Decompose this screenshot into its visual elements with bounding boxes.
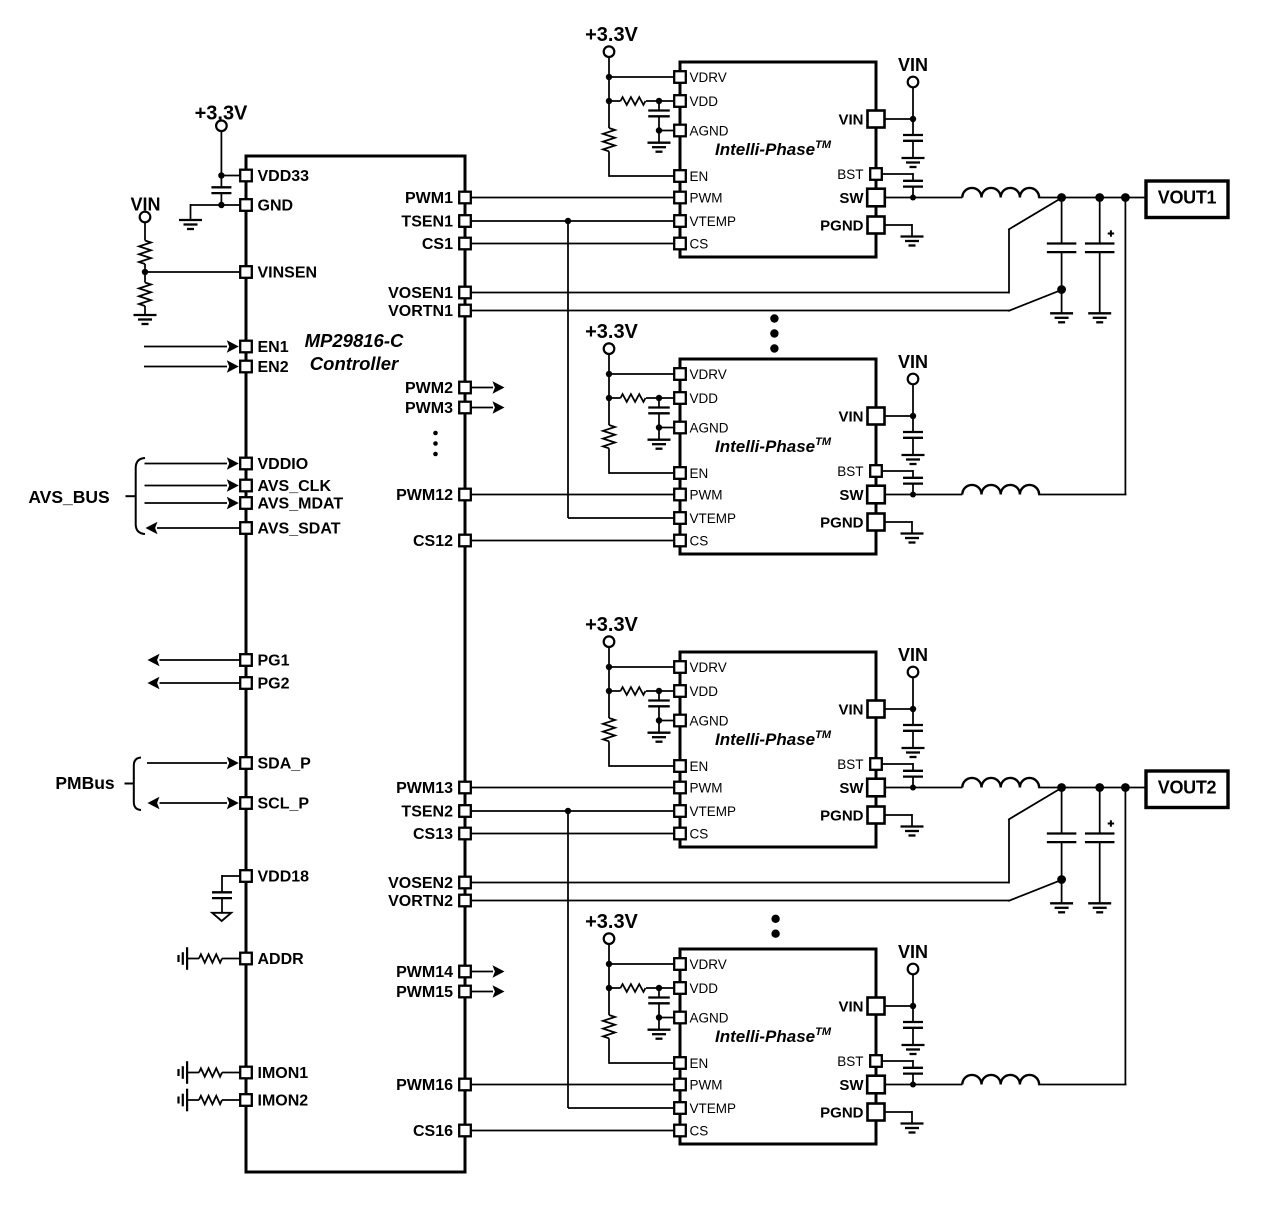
svg-text:Intelli-PhaseTM: Intelli-PhaseTM [715,436,832,456]
phase 3 wire BST to cap [881,763,913,771]
phase 3 pin CS [674,828,686,840]
phase 1 pin PGND [868,217,885,234]
svg-text:EN: EN [690,1056,709,1071]
ground (bulk cap VOUT2) [1088,903,1111,912]
svg-text:PWM: PWM [690,487,723,502]
phase 3 pin SW [867,779,885,797]
phase 3 pin label VDD [690,684,719,699]
svg-text:AGND: AGND [690,713,729,728]
phase 3 resistor VDD filter [621,687,646,695]
brace AVS_BUS [136,458,145,534]
arrow out of AVS_SDAT [146,522,158,535]
svg-text:VDRV: VDRV [690,70,727,85]
tick AVS_BUS brace [126,495,136,497]
arrow out of PWM2 [493,381,505,394]
phase 4 wire PGND to ground [885,1111,912,1123]
phase 2 pin BST [870,465,882,477]
phase 2 pin AGND [674,422,686,434]
phase 4 pin label CS [690,1123,709,1138]
phase 3 net VIN supply [898,645,928,665]
phase 2 wire to AGND pin [659,427,675,429]
phase 4 terminal circle VIN [908,964,919,975]
phase 2 pin label CS [690,533,709,548]
controller pin AVS_CLK [240,480,252,492]
phase 1 Intelli-Phase block box [680,62,876,257]
svg-text:Intelli-PhaseTM: Intelli-PhaseTM [715,729,832,749]
svg-text:VORTN1: VORTN1 [388,303,453,320]
svg-text:Intelli-PhaseTM: Intelli-PhaseTM [715,1026,832,1046]
phase 1 wire to AGND pin [659,130,675,132]
phase 2 net +3.3V supply [585,321,638,343]
phase 4 pin label BST [837,1054,863,1069]
wire resistor to IMON2 pin [222,1099,241,1101]
phase 1 pin label SW [839,190,864,207]
phase 2 wire BST cap to SW [912,484,914,495]
phase 2 wire resistor to EN [609,448,675,474]
phase 3 pin label BST [837,757,863,772]
svg-text:VIN: VIN [838,701,863,718]
phase 1 wire BST cap to SW [912,187,914,198]
junction output node B (VOUT2) [1095,783,1104,792]
wire SCL_P bidirectional [160,802,228,804]
phase 4 junction at VDD row [606,985,612,991]
wire ground to resistor (IMON2) [187,1099,199,1101]
svg-text:CS1: CS1 [422,236,453,253]
phase 2 wire resistor to VDD pin [646,397,675,399]
phase 3 wire VIN down [912,677,914,725]
phase 1 pin label CS [690,236,709,251]
junction TSEN2 branch [565,808,571,814]
phase 1 pin label AGND [690,123,729,138]
wire TSEN1 branch down [568,221,674,518]
phase 4 pin PWM [674,1079,686,1091]
svg-text:VOSEN1: VOSEN1 [388,285,453,302]
svg-text:VDRV: VDRV [690,660,727,675]
phase 2 junction at VDD row [606,395,612,401]
phase 2 pin VDD [674,392,686,404]
wire node A to ceramic cap [1061,198,1063,244]
phase 2 capacitor VDD bypass [648,408,670,414]
phase 4 terminal circle +3.3V [604,933,615,944]
svg-text:VORTN2: VORTN2 [388,893,453,910]
phase 2 junction at VDD cap [656,395,662,401]
svg-text:PG1: PG1 [258,653,290,670]
svg-text:CS16: CS16 [413,1123,453,1140]
controller pin AVS_MDAT [240,497,252,509]
phase 3 pin label VTEMP [690,804,737,819]
wire ceramic cap to sense junction [1061,252,1063,313]
phase 2 wire to VDRV pin [609,373,675,375]
junction sense return (VOUT2) [1057,875,1066,884]
svg-text:VDD: VDD [690,684,719,699]
controller U1 MP29816-C box [246,156,465,1172]
wire node B to bulk cap [1099,788,1101,834]
svg-text:PWM: PWM [690,1077,723,1092]
svg-text:VTEMP: VTEMP [690,1101,737,1116]
phase 4 junction at VDD cap [656,985,662,991]
controller pin label SDA_P [258,756,312,773]
junction at VDD33 [218,172,224,178]
arrow into SCL_P [227,797,239,810]
resistor divider lower [139,283,151,307]
wire EN2 input [144,366,227,368]
controller pin label AVS_SDAT [258,521,341,538]
phase 2 pin VDRV [674,368,686,380]
phase 3 junction at VDRV row [606,664,612,670]
wire VORTN2 sense [471,880,1062,901]
phase 3 label Intelli-Phase [715,729,832,749]
resistor IMON1 [199,1068,222,1076]
phase 1 wire to VDRV pin [609,76,675,78]
arrow out of PWM3 [493,401,505,414]
svg-text:EN2: EN2 [258,359,289,376]
controller pin IMON1 [240,1067,252,1079]
wire AVS_SDAT output [157,527,241,529]
phase 1 terminal circle +3.3V [604,46,615,57]
wire node B to bulk cap [1099,198,1101,244]
controller pin VDD18 [240,870,252,882]
phase 4 wire to VDRV pin [609,963,675,965]
svg-text:AGND: AGND [690,420,729,435]
controller pin PG1 [240,654,252,666]
phase 4 wire +3.3V rail down to EN [608,944,610,1015]
arrow out of PWM14 [493,965,505,978]
junction output node C (VOUT1) [1121,193,1130,202]
svg-text:AVS_SDAT: AVS_SDAT [258,521,341,538]
svg-text:AVS_BUS: AVS_BUS [28,487,109,507]
phase 1 wire +3.3V rail down to EN [608,57,610,128]
wire PG1 output [160,659,242,661]
phase 1 wire VIN pin to rail [885,118,913,120]
controller pin label PG2 [258,676,290,693]
wire ground to resistor (ADDR) [187,958,199,960]
controller pin label CS1 [422,236,453,253]
svg-text:VIN: VIN [838,408,863,425]
ellipsis phases section 1 [770,314,778,352]
tick PMBus brace [125,783,134,785]
phase 4 wire to VDD cap [658,988,660,998]
phase 3 junction at VDD row [606,688,612,694]
phase 4 wire to AGND pin [659,1017,675,1019]
svg-text:VDD18: VDD18 [258,869,310,886]
wire into VINSEN pin [145,271,241,273]
controller pin EN2 [240,361,252,373]
wire PWM14 output [471,971,493,973]
wire PWM16 to phase PWM [471,1084,674,1086]
wire divider to ground [144,306,146,315]
arrow into AVS_CLK [227,479,239,492]
ground (IMON1, sideways) [179,1061,188,1084]
svg-text:EN1: EN1 [258,339,289,356]
controller pin VINSEN [240,266,252,278]
svg-text:PWM13: PWM13 [396,780,453,797]
phase 1 wire resistor to EN [609,151,675,177]
phase 1 pin SW [867,189,885,207]
phase 4 pin label PGND [820,1104,864,1121]
phase 1 pin VDRV [674,71,686,83]
wire SW node to VOUT2 [1038,787,1146,789]
phase 1 pin AGND [674,125,686,137]
phase 4 pin VDRV [674,958,686,970]
phase 4 ground (AGND) [648,1030,671,1039]
phase 4 junction at VIN row [910,1003,916,1009]
polarity + (bulk cap VOUT2) [1108,820,1114,826]
phase 3 pin EN [674,760,686,772]
phase 4 ground (PGND) [901,1124,924,1133]
phase 3 wire VIN cap to ground [912,731,914,748]
controller pin PG2 [240,677,252,689]
label AVS_BUS [28,487,109,507]
phase 3 wire to AGND pin [659,720,675,722]
phase 1 wire PGND to ground [885,224,912,236]
phase 1 pin BST [870,168,882,180]
svg-text:PGND: PGND [820,217,864,234]
svg-text:PMBus: PMBus [55,773,115,793]
svg-text:+3.3V: +3.3V [585,321,638,343]
arrow out of PG1 [148,654,160,667]
phase 1 ground (AGND) [648,143,671,152]
svg-text:AGND: AGND [690,123,729,138]
phase 4 net +3.3V supply [585,911,638,933]
phase 1 pin label BST [837,167,863,182]
phase 4 wire to VDD resistor [609,987,621,989]
controller pin label TSEN1 [401,214,453,231]
arrow out of SCL_P [148,797,160,810]
phase 4 pin label VTEMP [690,1101,737,1116]
ground (controller GND) [179,220,202,229]
svg-text:+3.3V: +3.3V [585,24,638,46]
controller pin label VDDIO [258,456,309,473]
phase 3 wire PGND to ground [885,814,912,826]
box VOUT2 [1146,771,1228,808]
controller pin VDD33 [240,170,252,182]
svg-text:VIN: VIN [838,111,863,128]
phase 2 wire VIN cap to ground [912,438,914,455]
wire TSEN1 to phase VTEMP [471,220,674,222]
wire bulk cap to ground [1099,842,1101,903]
controller pin VORTN1 [459,305,471,317]
phase 4 pin label VDRV [690,957,727,972]
phase 2 junction at VDRV row [606,371,612,377]
controller pin label GND [258,198,294,215]
phase 2 pin label PWM [690,487,723,502]
junction output node A (VOUT2) [1057,783,1066,792]
phase 1 pin label EN [690,169,709,184]
svg-text:+3.3V: +3.3V [585,911,638,933]
svg-text:PG2: PG2 [258,676,290,693]
label Controller [310,353,400,374]
phase 4 wire VDD cap to AGND [658,1003,660,1029]
wire PWM3 output [471,407,493,409]
svg-text:Intelli-PhaseTM: Intelli-PhaseTM [715,139,832,159]
phase 4 wire BST to cap [881,1060,913,1068]
label VOUT1 [1158,188,1217,208]
svg-text:VDD33: VDD33 [258,168,310,185]
ground arrow (VDD18) [212,913,231,921]
controller pin IMON2 [240,1094,252,1106]
svg-text:PGND: PGND [820,807,864,824]
phase 2 pin PWM [674,489,686,501]
ellipsis phases section 2 [771,915,779,938]
wire SDA_P input [147,762,227,764]
phase 2 capacitor VIN bypass [903,432,923,438]
phase 3 capacitor VDD bypass [648,701,670,707]
wire phase 2 inductor to VOUT1 rail [1038,494,1126,496]
phase 1 pin VIN [868,111,885,128]
phase 1 wire SW to inductor [885,197,962,199]
svg-text:VINSEN: VINSEN [258,265,318,282]
controller pin PWM2 [459,382,471,394]
phase 3 pin label CS [690,826,709,841]
phase 3 capacitor VIN bypass [903,725,923,731]
phase 3 pin label PGND [820,807,864,824]
wire ceramic cap to sense junction [1061,842,1063,903]
phase 1 capacitor VIN bypass [903,135,923,141]
svg-text:BST: BST [837,464,863,479]
phase 3 pin label EN [690,759,709,774]
wire AVS_MDAT input [145,502,228,504]
phase 4 pin VIN [868,998,885,1015]
wire TSEN2 to phase VTEMP [471,810,674,812]
phase 3 pin label AGND [690,713,729,728]
ground (ceramic cap VOUT1) [1050,313,1073,322]
junction output node B (VOUT1) [1095,193,1104,202]
wire into VDD33 pin [221,175,241,177]
phase 4 pin label VDD [690,981,719,996]
controller pin label CS13 [413,826,453,843]
phase 4 junction at VDRV row [606,961,612,967]
phase 3 pin PWM [674,782,686,794]
controller pin label EN1 [258,339,289,356]
wire VDDIO input [145,463,228,465]
phase 2 pin label PGND [820,514,864,531]
phase 1 junction at VDD row [606,98,612,104]
phase 3 pin VDD [674,685,686,697]
phase 4 pin label AGND [690,1010,729,1025]
controller pin VORTN2 [459,895,471,907]
phase 1 net +3.3V supply [585,24,638,46]
ellipsis PWM4-PWM11 [433,431,438,457]
phase 2 wire SW to inductor [885,494,962,496]
phase 2 pin PGND [868,514,885,531]
junction output node A (VOUT1) [1057,193,1066,202]
wire PG2 output [160,682,242,684]
phase 4 Intelli-Phase block box [680,949,876,1144]
phase 3 pin PGND [868,807,885,824]
arrow out of PG2 [148,677,160,690]
wire PWM2 output [471,387,493,389]
phase 3 Intelli-Phase block box [680,652,876,847]
arrow into VDDIO [227,457,239,470]
svg-text:CS12: CS12 [413,533,453,550]
phase 1 ground (VIN bypass) [902,158,925,167]
phase 3 pin label VDRV [690,660,727,675]
controller pin GND [240,199,252,211]
phase 2 pin CS [674,535,686,547]
phase 3 junction at VDD cap [656,688,662,694]
resistor divider upper [139,241,151,265]
capacitor output ceramic (VOUT1) [1047,244,1077,253]
phase 2 pin label VDD [690,391,719,406]
phase 3 pin BST [870,758,882,770]
phase 2 pin label VDRV [690,367,727,382]
wire resistor to IMON1 pin [222,1072,241,1074]
phase 1 wire resistor to VDD pin [646,100,675,102]
capacitor VDD33 decoupling [211,187,231,193]
phase 1 net VIN supply [898,55,928,75]
phase 2 wire +3.3V rail down to EN [608,354,610,425]
phase 2 terminal circle +3.3V [604,343,615,354]
svg-text:PWM12: PWM12 [396,487,453,504]
controller pin label AVS_MDAT [258,496,344,513]
svg-text:VDRV: VDRV [690,957,727,972]
svg-text:SW: SW [839,1077,864,1094]
phase 3 ground (VIN bypass) [902,748,925,757]
svg-text:CS: CS [690,1123,709,1138]
phase 3 wire BST cap to SW [912,777,914,788]
wire bulk cap to ground [1099,252,1101,313]
controller pin label VOSEN1 [388,285,453,302]
wire CS1 to phase CS [471,243,674,245]
phase 3 net +3.3V supply [585,614,638,636]
phase 4 pin label VIN [838,998,863,1015]
phase 1 pin label VDRV [690,70,727,85]
svg-text:SW: SW [839,487,864,504]
wire GND to ground [191,204,222,220]
svg-text:CS: CS [690,826,709,841]
svg-text:SCL_P: SCL_P [258,796,310,813]
svg-text:ADDR: ADDR [258,951,305,968]
net +3.3V supply (controller) [195,103,248,125]
capacitor VDD18 decoupling [212,892,232,898]
phase 3 pin AGND [674,715,686,727]
wire +3.3V to VDD33/GND rail [220,131,222,205]
phase 2 resistor VDD filter [621,394,646,402]
terminal circle VIN (divider) [140,212,151,223]
phase 2 pin label VTEMP [690,511,737,526]
controller pin label PWM12 [396,487,453,504]
phase 4 capacitor BST bootstrap [903,1068,923,1074]
controller pin PWM16 [459,1079,471,1091]
phase 3 wire resistor to VDD pin [646,690,675,692]
phase 4 junction at AGND row [656,1014,662,1020]
phase 2 pin label SW [839,487,864,504]
phase 4 pin VDD [674,982,686,994]
svg-text:CS: CS [690,533,709,548]
phase 3 wire resistor to EN [609,741,675,767]
phase 4 wire VIN pin to rail [885,1005,913,1007]
arrow into EN2 [227,360,239,373]
svg-text:PWM3: PWM3 [405,400,453,417]
phase 2 wire PGND to ground [885,521,912,533]
controller pin label PWM13 [396,780,453,797]
wire PWM12 to phase PWM [471,494,674,496]
controller pin CS16 [459,1125,471,1137]
svg-text:TSEN1: TSEN1 [401,214,453,231]
phase 3 pin VDRV [674,661,686,673]
controller pin PWM1 [459,192,471,204]
phase 1 label Intelli-Phase [715,139,832,159]
controller pin label VORTN1 [388,303,453,320]
phase 4 pin EN [674,1057,686,1069]
phase 2 junction at SW [910,492,916,498]
ground (ceramic cap VOUT2) [1050,903,1073,912]
phase 1 wire BST to cap [881,173,913,181]
phase 1 pin label VTEMP [690,214,737,229]
phase 2 net VIN supply [898,352,928,372]
svg-text:PGND: PGND [820,514,864,531]
box VOUT1 [1146,181,1228,218]
